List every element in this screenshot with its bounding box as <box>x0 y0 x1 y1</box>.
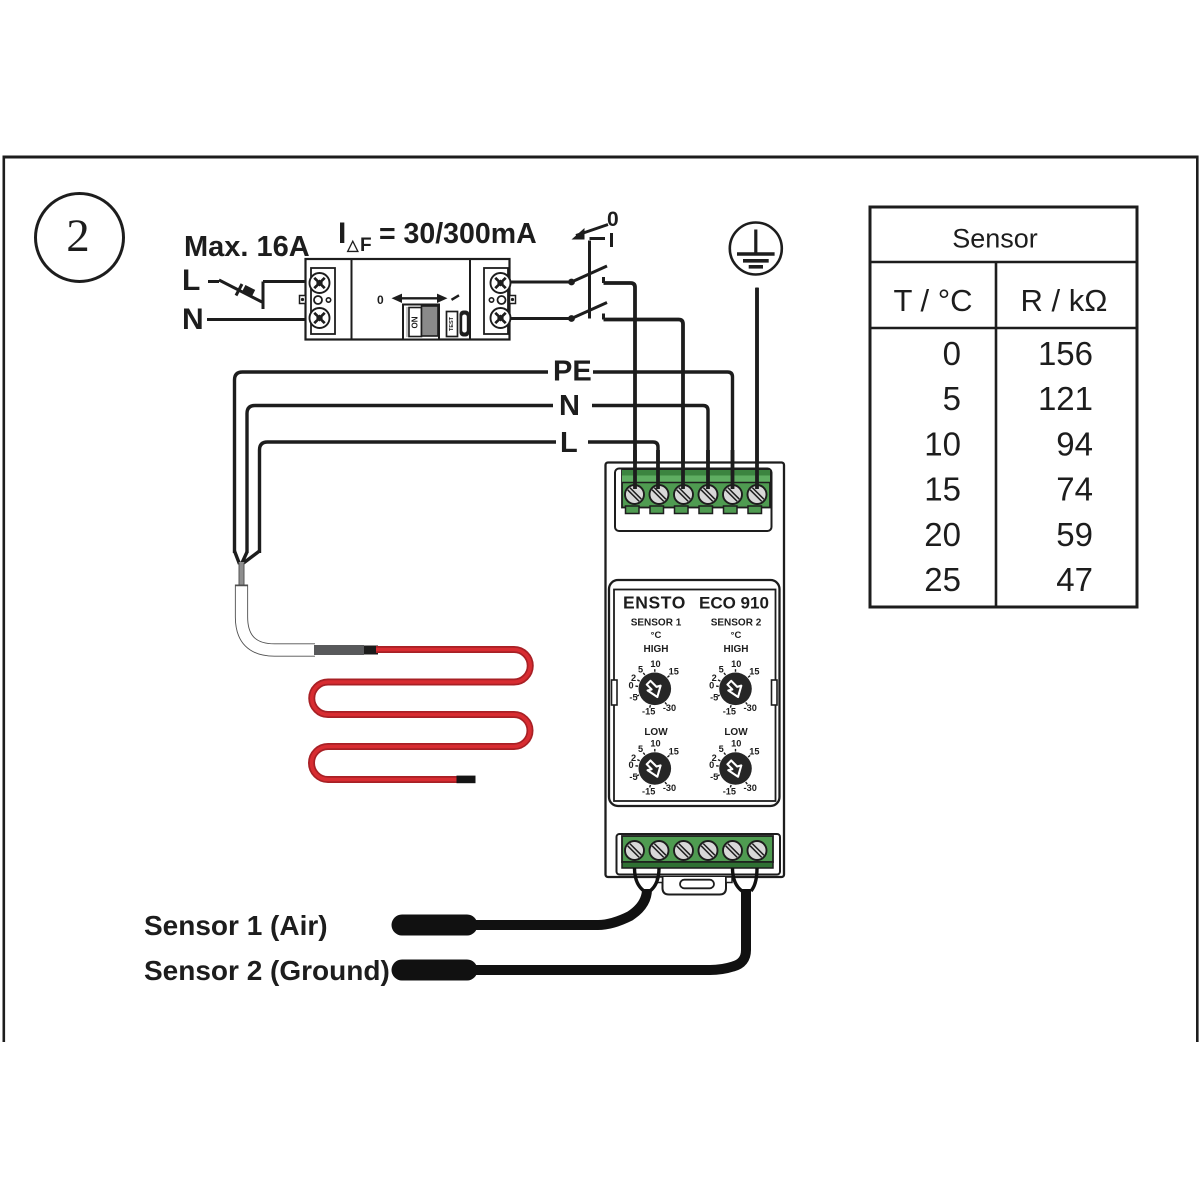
svg-text:ENSTO: ENSTO <box>623 593 686 613</box>
svg-text:0: 0 <box>709 681 714 691</box>
svg-text:2: 2 <box>66 210 90 262</box>
svg-text:-15: -15 <box>642 786 655 796</box>
svg-text:-5: -5 <box>629 772 637 782</box>
svg-text:5: 5 <box>719 664 724 674</box>
svg-text:0: 0 <box>709 760 714 770</box>
svg-text:Sensor: Sensor <box>952 224 1038 254</box>
svg-text:20: 20 <box>924 516 961 553</box>
svg-text:10: 10 <box>731 739 741 749</box>
svg-text:-5: -5 <box>710 693 718 703</box>
svg-text:LOW: LOW <box>724 727 748 738</box>
svg-text:-30: -30 <box>744 703 757 713</box>
svg-text:Max. 16A: Max. 16A <box>184 231 310 263</box>
svg-text:°C: °C <box>651 630 662 641</box>
svg-text:10: 10 <box>924 425 961 462</box>
svg-text:N: N <box>559 390 580 422</box>
svg-text:= 30/300mA: = 30/300mA <box>379 218 537 250</box>
svg-text:59: 59 <box>1056 516 1093 553</box>
svg-text:0: 0 <box>628 681 633 691</box>
svg-text:15: 15 <box>924 471 961 508</box>
svg-text:SENSOR 2: SENSOR 2 <box>711 618 762 629</box>
svg-text:HIGH: HIGH <box>724 644 749 655</box>
svg-text:N: N <box>182 303 204 336</box>
svg-text:-5: -5 <box>629 693 637 703</box>
svg-text:T / °C: T / °C <box>894 283 973 318</box>
svg-text:0: 0 <box>628 760 633 770</box>
svg-text:5: 5 <box>638 744 643 754</box>
svg-text:PE: PE <box>553 356 592 388</box>
svg-text:Sensor 1 (Air): Sensor 1 (Air) <box>144 910 328 941</box>
svg-text:-15: -15 <box>642 707 655 717</box>
svg-text:15: 15 <box>749 667 759 677</box>
svg-text:0: 0 <box>943 335 961 372</box>
svg-text:-15: -15 <box>723 707 736 717</box>
svg-text:5: 5 <box>638 664 643 674</box>
svg-text:ECO 910: ECO 910 <box>699 594 769 613</box>
svg-text:156: 156 <box>1038 335 1093 372</box>
svg-text:L: L <box>182 264 200 297</box>
svg-text:HIGH: HIGH <box>644 644 669 655</box>
svg-text:0: 0 <box>607 208 619 231</box>
svg-text:LOW: LOW <box>644 727 668 738</box>
svg-text:-30: -30 <box>744 783 757 793</box>
svg-text:94: 94 <box>1056 425 1093 462</box>
svg-text:10: 10 <box>731 659 741 669</box>
svg-text:15: 15 <box>669 667 679 677</box>
svg-text:0: 0 <box>377 293 384 307</box>
svg-text:F: F <box>360 235 372 256</box>
svg-text:L: L <box>560 427 578 459</box>
svg-text:TEST: TEST <box>449 316 455 331</box>
svg-text:47: 47 <box>1056 561 1093 598</box>
svg-text:10: 10 <box>650 739 660 749</box>
svg-text:15: 15 <box>749 746 759 756</box>
svg-text:5: 5 <box>719 744 724 754</box>
svg-text:Sensor 2 (Ground): Sensor 2 (Ground) <box>144 955 390 986</box>
svg-text:-30: -30 <box>663 703 676 713</box>
svg-text:R / kΩ: R / kΩ <box>1021 283 1108 318</box>
svg-text:-15: -15 <box>723 786 736 796</box>
svg-text:5: 5 <box>943 380 961 417</box>
svg-text:SENSOR 1: SENSOR 1 <box>631 618 682 629</box>
svg-text:°C: °C <box>731 630 742 641</box>
svg-text:△: △ <box>346 237 359 254</box>
svg-text:ON: ON <box>411 316 420 328</box>
svg-text:I: I <box>338 217 346 250</box>
svg-text:121: 121 <box>1038 380 1093 417</box>
svg-text:15: 15 <box>669 746 679 756</box>
svg-text:25: 25 <box>924 561 961 598</box>
svg-text:74: 74 <box>1056 471 1093 508</box>
svg-text:-30: -30 <box>663 783 676 793</box>
svg-text:-5: -5 <box>710 772 718 782</box>
svg-text:10: 10 <box>650 659 660 669</box>
